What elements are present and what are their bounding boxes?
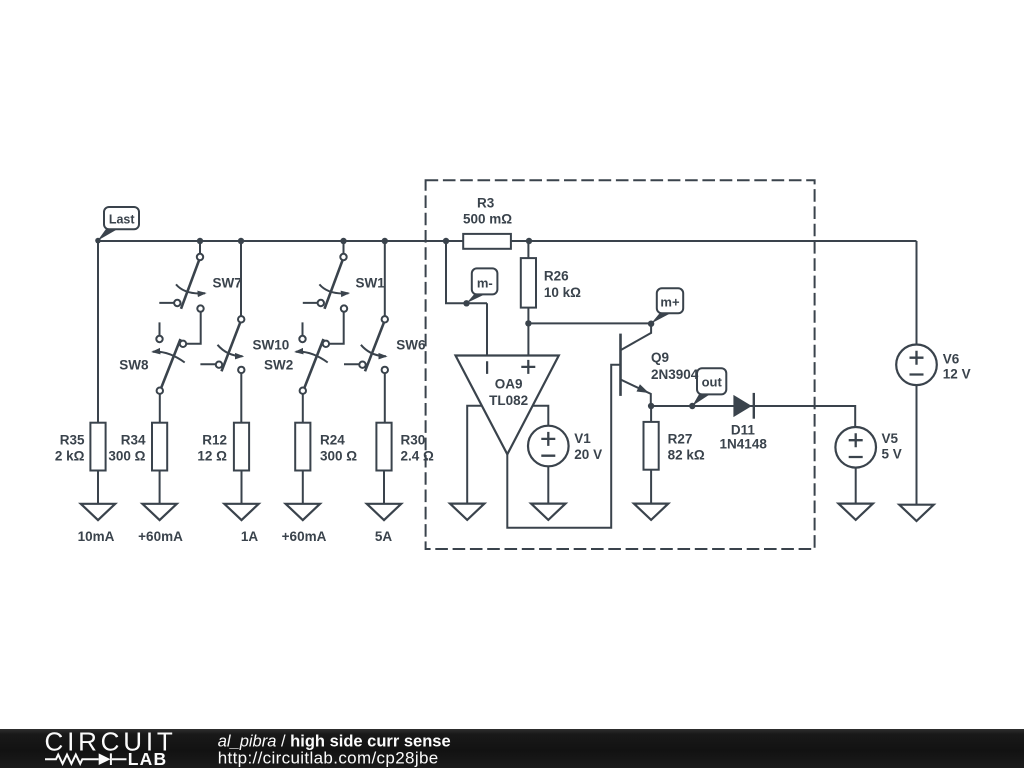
svg-text:1N4148: 1N4148 [720, 437, 768, 452]
svg-text:300 Ω: 300 Ω [320, 449, 357, 464]
svg-text:http://circuitlab.com/cp28jbe: http://circuitlab.com/cp28jbe [218, 748, 439, 767]
svg-text:2N3904: 2N3904 [651, 367, 699, 382]
svg-text:V1: V1 [574, 431, 591, 446]
svg-text:SW8: SW8 [119, 358, 149, 373]
svg-text:R24: R24 [320, 433, 345, 448]
svg-text:300 Ω: 300 Ω [108, 449, 145, 464]
svg-text:82 kΩ: 82 kΩ [668, 448, 705, 463]
svg-text:m+: m+ [660, 295, 680, 310]
svg-text:out: out [702, 375, 723, 390]
svg-text:SW1: SW1 [356, 276, 386, 291]
svg-text:R12: R12 [202, 433, 227, 448]
svg-text:1A: 1A [241, 529, 259, 544]
svg-text:V5: V5 [882, 431, 899, 446]
svg-text:Last: Last [109, 212, 136, 226]
svg-text:2 kΩ: 2 kΩ [55, 449, 85, 464]
svg-text:R35: R35 [60, 433, 85, 448]
svg-text:+60mA: +60mA [282, 529, 327, 544]
svg-text:R27: R27 [668, 432, 693, 447]
svg-text:R26: R26 [544, 268, 569, 283]
svg-text:12 V: 12 V [943, 367, 971, 382]
svg-text:R3: R3 [477, 195, 495, 210]
svg-text:+60mA: +60mA [138, 529, 183, 544]
svg-text:Q9: Q9 [651, 350, 669, 365]
svg-text:10 kΩ: 10 kΩ [544, 285, 581, 300]
svg-text:20 V: 20 V [574, 447, 602, 462]
svg-text:R34: R34 [121, 433, 146, 448]
svg-text:SW2: SW2 [264, 358, 293, 373]
svg-text:12 Ω: 12 Ω [197, 449, 227, 464]
svg-text:R30: R30 [401, 433, 426, 448]
svg-text:D11: D11 [731, 423, 756, 438]
svg-text:SW6: SW6 [396, 338, 426, 353]
svg-text:5 V: 5 V [882, 446, 902, 461]
svg-text:SW7: SW7 [213, 276, 242, 291]
svg-text:LAB: LAB [128, 749, 168, 768]
svg-text:OA9: OA9 [495, 376, 523, 391]
svg-text:m-: m- [477, 275, 493, 290]
svg-text:TL082: TL082 [489, 393, 528, 408]
svg-text:2.4 Ω: 2.4 Ω [401, 449, 435, 464]
svg-text:500 mΩ: 500 mΩ [463, 212, 512, 227]
svg-text:5A: 5A [375, 529, 393, 544]
svg-text:V6: V6 [943, 351, 960, 366]
svg-text:10mA: 10mA [78, 529, 115, 544]
svg-text:SW10: SW10 [253, 338, 290, 353]
